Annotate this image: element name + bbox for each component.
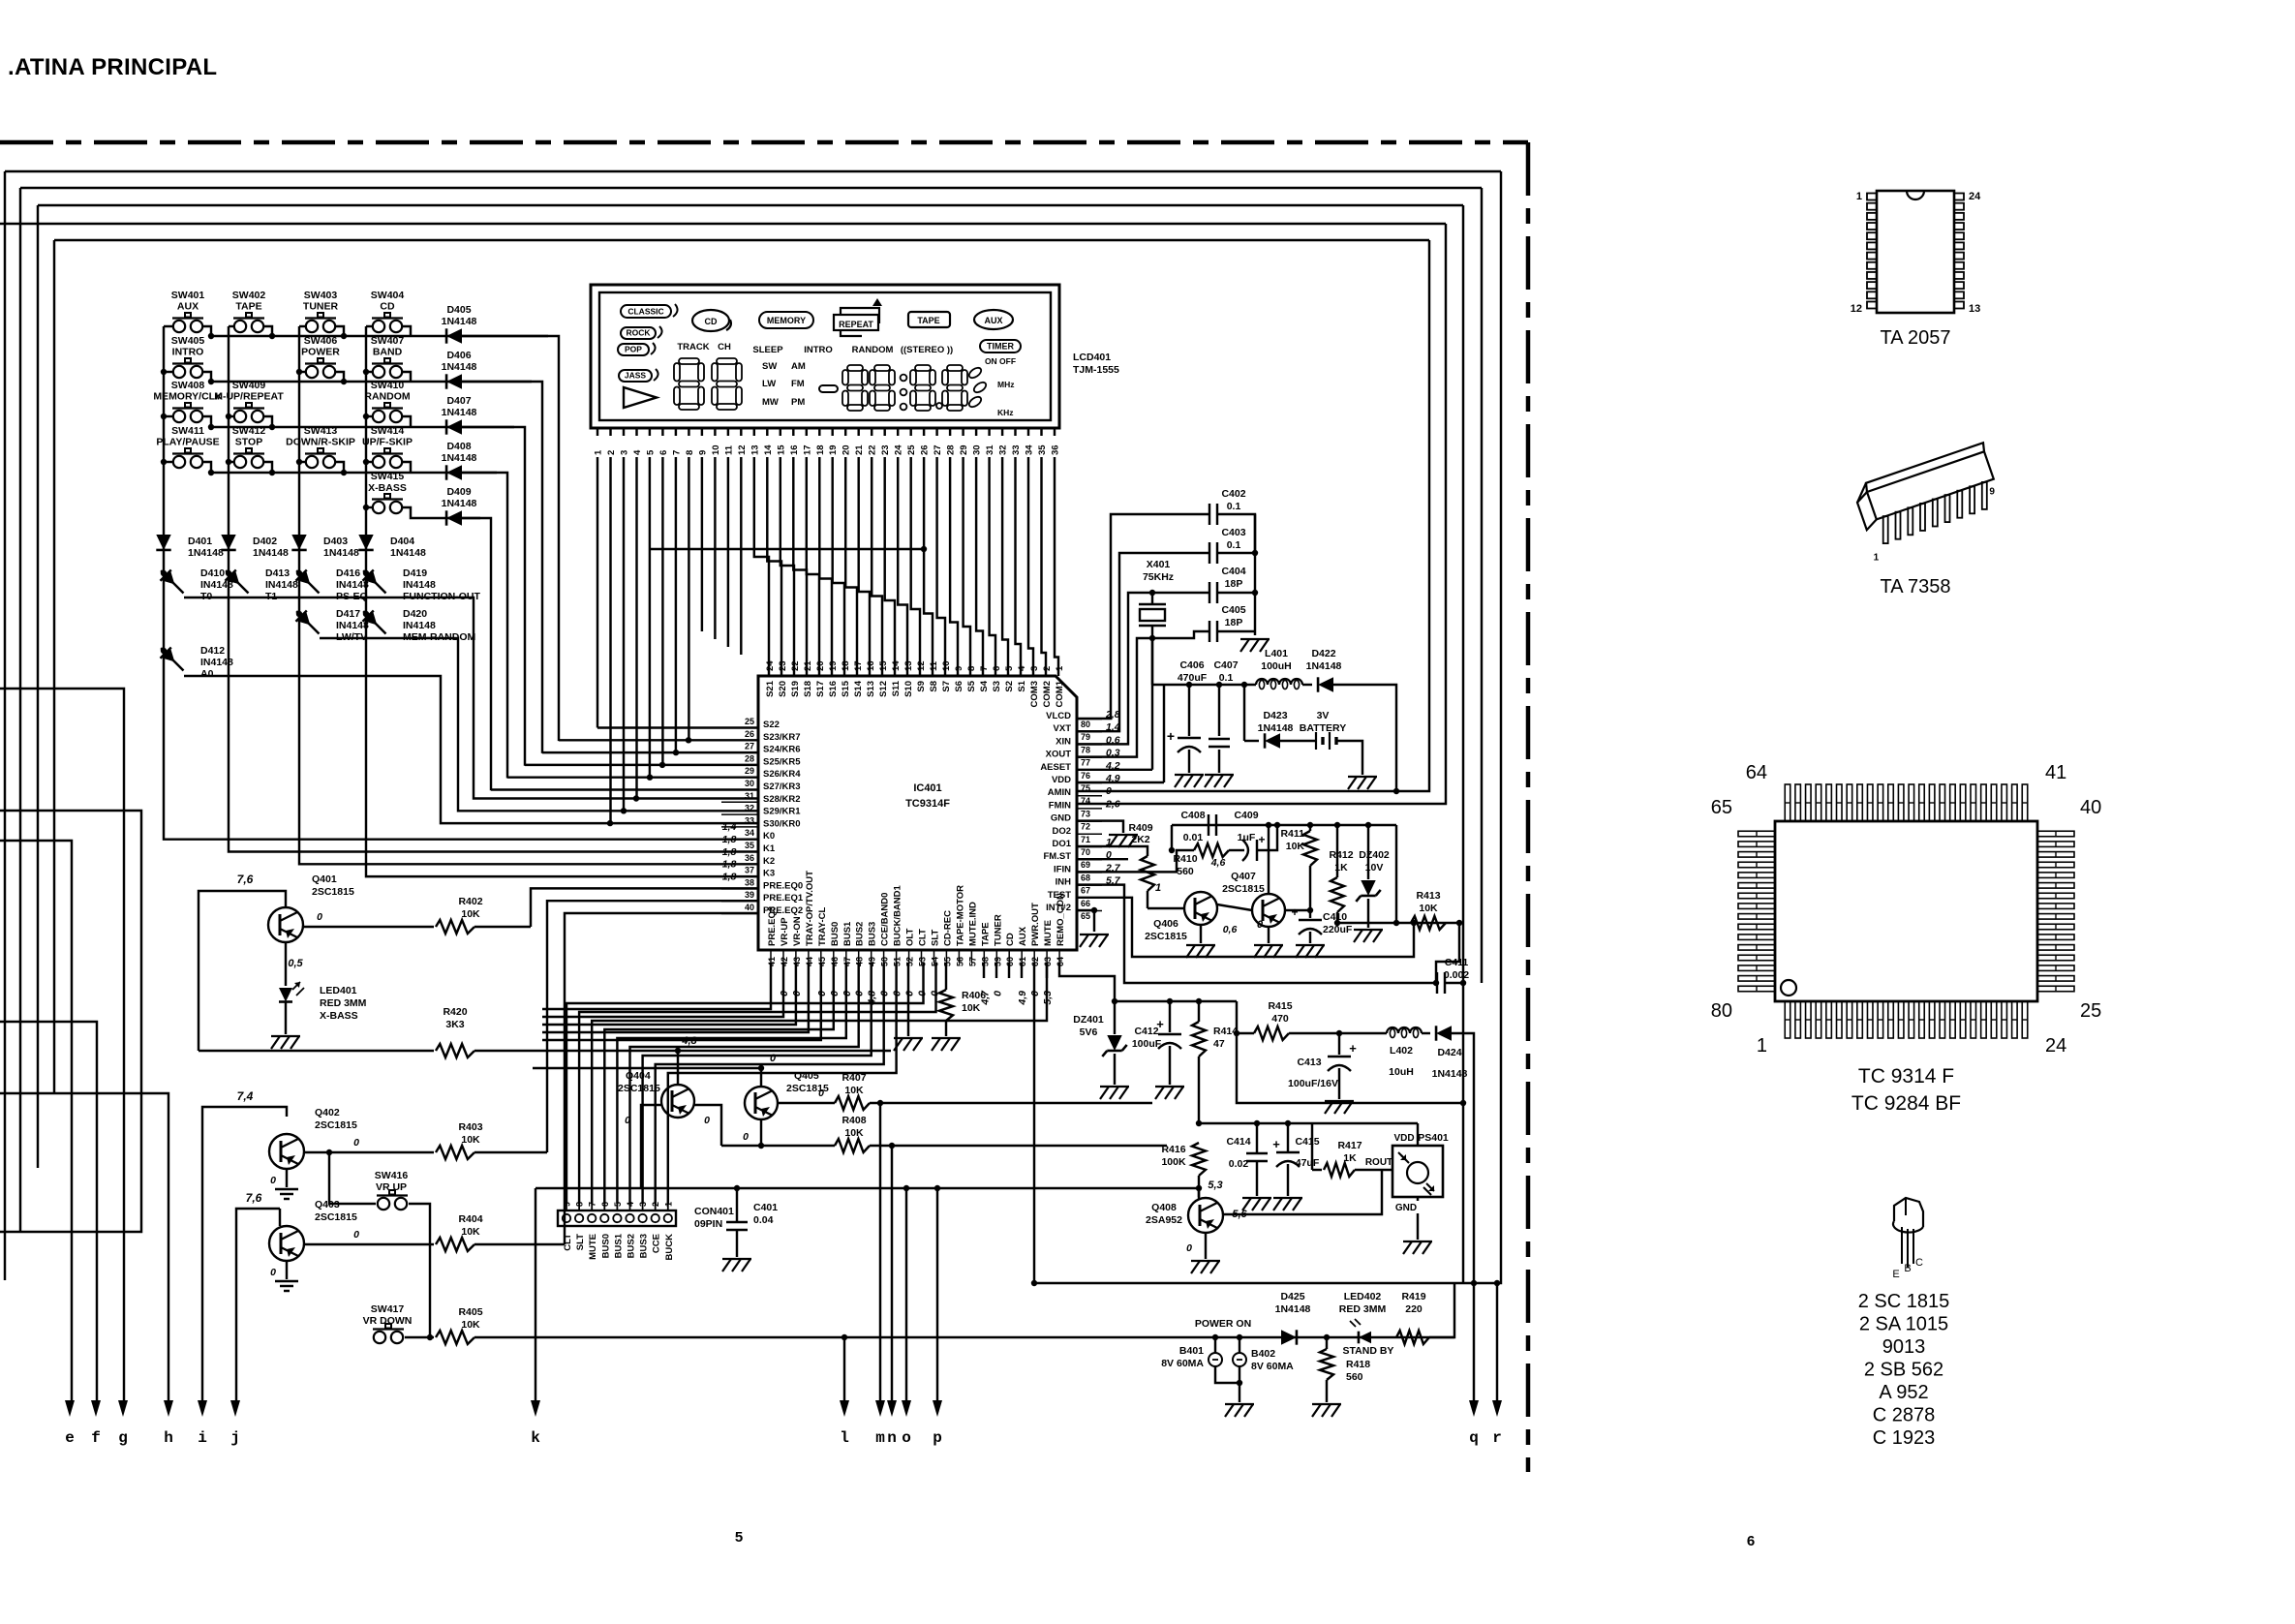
svg-text:68: 68 (1081, 873, 1090, 882)
svg-text:S16: S16 (828, 681, 839, 697)
LCD icon CLASSIC (621, 305, 671, 318)
svg-text:DO1: DO1 (1052, 839, 1071, 849)
diode D413 1N4148 T1 (226, 570, 231, 576)
svg-text:4: 4 (626, 1202, 635, 1207)
LCD icon MEMORY (759, 312, 813, 328)
LCD icon POP (618, 344, 649, 355)
svg-text:0.04: 0.04 (753, 1214, 774, 1226)
wire D406 row to vertical (462, 382, 542, 753)
svg-text:D410: D410 (200, 567, 225, 579)
LCD icon TAPE (908, 312, 950, 327)
svg-text:09PIN: 09PIN (694, 1218, 722, 1230)
svg-text:TUNER: TUNER (303, 301, 339, 313)
wire switch row 1 (164, 325, 173, 327)
svg-text:0: 0 (270, 1175, 276, 1186)
svg-text:0: 0 (353, 1229, 359, 1241)
capacitor C404 18P (1209, 582, 1210, 603)
svg-text:m: m (875, 1429, 885, 1447)
svg-text:DZ402: DZ402 (1359, 849, 1390, 861)
svg-text:FM: FM (791, 379, 805, 389)
capacitor C402 0.1 (1209, 504, 1210, 525)
svg-text:STAND BY: STAND BY (1343, 1345, 1394, 1357)
svg-text:R418: R418 (1346, 1359, 1370, 1370)
wire bus top line 2 (20, 187, 1482, 189)
svg-text:9: 9 (697, 450, 708, 455)
svg-text:13: 13 (750, 444, 760, 455)
wire Q401 base row R402 (303, 926, 434, 928)
svg-text:INTRO: INTRO (804, 345, 833, 355)
svg-text:220: 220 (1405, 1303, 1423, 1315)
svg-text:C409: C409 (1234, 810, 1258, 821)
svg-text:C413: C413 (1297, 1057, 1321, 1068)
svg-text:BUS1: BUS1 (842, 921, 853, 946)
svg-text:INH: INH (1056, 877, 1072, 888)
wire switch column 4 (365, 326, 367, 614)
node i arrow (198, 1400, 207, 1417)
wire PRE.EQ0 loop to R402 (531, 888, 758, 927)
LCD 7seg TRACK digits 88 (679, 358, 699, 364)
wire XIN row to C404 and X401 (1077, 593, 1209, 744)
svg-text:+: + (1258, 833, 1265, 846)
svg-text:1N4148: 1N4148 (442, 316, 477, 327)
svg-text:Q403: Q403 (315, 1199, 340, 1210)
svg-text:32: 32 (998, 444, 1009, 455)
svg-text:CH: CH (718, 342, 731, 352)
svg-text:Q405: Q405 (794, 1070, 819, 1082)
svg-text:+: + (1349, 1041, 1357, 1056)
svg-text:D406: D406 (446, 350, 471, 361)
svg-text:R420: R420 (443, 1006, 467, 1018)
svg-text:6: 6 (658, 450, 669, 455)
svg-text:24: 24 (894, 444, 904, 455)
svg-text:24: 24 (765, 660, 776, 671)
wire SW415 row (366, 506, 373, 508)
svg-text:Q406: Q406 (1153, 918, 1178, 930)
svg-text:GND: GND (1051, 813, 1071, 824)
svg-text:14: 14 (763, 444, 774, 455)
wire bus right vertical 2 to C411 (1481, 188, 1483, 983)
ground below C402-C405 chain (1254, 514, 1256, 635)
wire bottom row 1325 r drop (1494, 1280, 1500, 1286)
svg-text:D423: D423 (1263, 710, 1287, 721)
svg-text:STOP: STOP (235, 437, 262, 448)
wire switch column 2 (228, 326, 229, 573)
LCD pin stubs and numbers 1-36 (597, 428, 598, 436)
svg-text:0: 0 (1257, 919, 1264, 931)
svg-text:1N4148: 1N4148 (1275, 1303, 1311, 1315)
wire Q405 emitter (760, 1119, 762, 1146)
svg-text:S6: S6 (954, 681, 964, 692)
svg-text:D425: D425 (1280, 1291, 1304, 1302)
svg-text:BAND: BAND (373, 347, 403, 358)
svg-text:1N4148: 1N4148 (442, 361, 477, 373)
svg-text:TAPE: TAPE (917, 316, 939, 325)
svg-text:78: 78 (1081, 745, 1090, 754)
wire switch row 2 (164, 371, 173, 373)
svg-text:PRE.EQ1: PRE.EQ1 (763, 893, 804, 904)
svg-text:D419: D419 (403, 567, 427, 579)
svg-text:+: + (1291, 905, 1298, 919)
svg-text:10K: 10K (461, 1134, 480, 1146)
capacitor C403 0.1 (1209, 542, 1210, 564)
svg-text:PLAY/PAUSE: PLAY/PAUSE (156, 437, 219, 448)
LCD icon REPEAT (834, 315, 878, 330)
svg-text:TUNER: TUNER (993, 914, 1003, 946)
svg-text:28: 28 (745, 753, 754, 763)
svg-text:3: 3 (1029, 666, 1040, 671)
svg-text:1,8: 1,8 (722, 834, 737, 845)
svg-text:2SC1815: 2SC1815 (312, 886, 354, 898)
svg-text:PS401: PS401 (1418, 1132, 1449, 1144)
svg-text:j: j (230, 1429, 240, 1447)
svg-text:CLT: CLT (918, 929, 929, 946)
svg-text:RED 3MM: RED 3MM (1339, 1303, 1387, 1315)
svg-text:D420: D420 (403, 608, 427, 620)
svg-text:470uF: 470uF (1178, 672, 1208, 684)
svg-text:GND: GND (1395, 1203, 1417, 1213)
svg-text:S5: S5 (966, 680, 977, 691)
svg-text:9: 9 (563, 1202, 572, 1207)
svg-text:n: n (887, 1429, 897, 1447)
svg-text:f: f (91, 1429, 101, 1447)
svg-text:VR UP: VR UP (376, 1181, 407, 1193)
svg-text:R419: R419 (1401, 1291, 1425, 1302)
svg-text:C402: C402 (1221, 488, 1245, 500)
svg-text:73: 73 (1081, 809, 1090, 818)
svg-text:DOWN/R-SKIP: DOWN/R-SKIP (286, 437, 355, 448)
svg-text:IN4148: IN4148 (265, 579, 298, 591)
svg-text:C403: C403 (1221, 527, 1245, 538)
svg-text:C: C (1915, 1257, 1923, 1269)
svg-text:30: 30 (972, 444, 983, 455)
svg-text:33: 33 (1011, 444, 1022, 455)
svg-text:D407: D407 (446, 395, 471, 407)
svg-text:K0: K0 (763, 831, 775, 842)
svg-text:17: 17 (853, 660, 864, 671)
svg-text:40: 40 (2080, 797, 2101, 818)
svg-text:S26/KR4: S26/KR4 (763, 769, 801, 780)
svg-text:18: 18 (841, 660, 851, 671)
svg-text:3: 3 (638, 1202, 648, 1207)
svg-text:D404: D404 (390, 536, 414, 547)
wire k drop (535, 1188, 536, 1402)
wire PRE.EQ2 loop to R404 (565, 913, 758, 1244)
LCD 7seg clock digits 88:88 (847, 365, 863, 371)
svg-text:24: 24 (1969, 191, 1981, 202)
svg-text:0: 0 (704, 1115, 710, 1126)
wire left feeder to e (0, 841, 72, 1402)
svg-text:10: 10 (711, 444, 721, 455)
wire REMO_CON drop to 5V row (1059, 963, 1115, 1001)
svg-text:FMIN: FMIN (1049, 800, 1071, 811)
svg-text:0: 0 (904, 991, 916, 996)
svg-text:R413: R413 (1416, 890, 1440, 902)
wire bus left vertical 4 (53, 240, 55, 1093)
wire row R413 (1337, 922, 1459, 924)
svg-text:POWER: POWER (301, 347, 340, 358)
svg-text:COM3: COM3 (1029, 681, 1040, 707)
LCD icon TIMER (980, 340, 1021, 352)
svg-text:0: 0 (1106, 785, 1112, 797)
svg-text:100uH: 100uH (1261, 660, 1292, 672)
svg-text:SW: SW (762, 361, 777, 372)
svg-text:Q407: Q407 (1231, 871, 1256, 882)
wire Q406 collector to Q407 base (1217, 904, 1252, 910)
LCD icon CD (692, 310, 729, 331)
svg-text:SW405: SW405 (171, 335, 205, 347)
wire D409 row to vertical (462, 518, 491, 790)
svg-text:29: 29 (959, 444, 969, 455)
svg-text:PWR.OUT: PWR.OUT (1030, 903, 1041, 946)
svg-text:1: 1 (663, 1202, 673, 1207)
diode D419 1N4148 FUNCTION-OUT (363, 570, 369, 576)
svg-text:R411: R411 (1280, 828, 1304, 840)
svg-text:31: 31 (985, 444, 995, 455)
svg-text:K3: K3 (763, 869, 775, 879)
svg-text:VLCD: VLCD (1046, 711, 1071, 721)
connector CON401 09PIN (558, 1210, 676, 1226)
svg-text:D403: D403 (323, 536, 348, 547)
page border dash-dot right (1526, 142, 1531, 1472)
wire Q401 emitter to LED401 (285, 942, 287, 986)
svg-text:IN4148: IN4148 (403, 620, 436, 631)
svg-text:CLT: CLT (563, 1234, 573, 1251)
svg-text:1: 1 (1055, 665, 1065, 671)
svg-text:41: 41 (2045, 762, 2066, 783)
svg-text:9: 9 (1989, 487, 1995, 498)
wire K0-K3 rows from switch columns (164, 651, 758, 840)
node k arrow (531, 1400, 540, 1417)
svg-text:0.002: 0.002 (1444, 969, 1469, 981)
svg-text:12: 12 (1851, 303, 1862, 315)
svg-text:C412: C412 (1134, 1026, 1158, 1037)
svg-text:CD-REC: CD-REC (942, 910, 953, 946)
node g arrow (118, 1400, 128, 1417)
node p arrow (933, 1400, 942, 1417)
svg-text:C 2878: C 2878 (1873, 1405, 1936, 1426)
svg-text:S13: S13 (866, 681, 876, 697)
wire row 1160 (1199, 1122, 1418, 1124)
svg-text:9: 9 (954, 666, 964, 671)
svg-text:7: 7 (979, 666, 990, 671)
svg-text:POWER ON: POWER ON (1195, 1318, 1251, 1330)
wire Q403 collector row R404 (304, 1243, 434, 1245)
svg-text:67: 67 (1081, 886, 1090, 896)
svg-text:IFIN: IFIN (1054, 864, 1071, 874)
svg-text:B402: B402 (1251, 1348, 1275, 1360)
svg-text:CON401: CON401 (694, 1206, 734, 1217)
svg-text:23: 23 (880, 444, 891, 455)
svg-text:COM2: COM2 (1042, 681, 1053, 707)
svg-text:INTRO: INTRO (172, 347, 204, 358)
svg-text:BUS0: BUS0 (830, 922, 841, 946)
svg-text:D412: D412 (200, 645, 225, 657)
svg-text:56: 56 (955, 957, 964, 966)
svg-text:R405: R405 (458, 1306, 482, 1318)
svg-text:80: 80 (1081, 720, 1090, 729)
svg-text:0,5: 0,5 (288, 958, 303, 969)
svg-text:VXT: VXT (1054, 723, 1072, 734)
svg-text:1N4148: 1N4148 (442, 498, 477, 509)
svg-text:MHz: MHz (997, 380, 1014, 389)
wire bus left vertical 2 (19, 188, 21, 1232)
wire VDD row to supply rail (1077, 781, 1164, 783)
wire row 1103 to Q405 (533, 1067, 761, 1069)
wire D408 row to vertical (462, 473, 507, 779)
svg-text:S20: S20 (778, 681, 788, 697)
svg-text:47: 47 (1213, 1038, 1225, 1050)
svg-text:7,6: 7,6 (246, 1191, 262, 1205)
diode D407 1N4148 (446, 419, 462, 434)
svg-text:IN4148: IN4148 (403, 579, 436, 591)
node h arrow (164, 1400, 173, 1417)
svg-text:AESET: AESET (1040, 762, 1071, 773)
wire bus top line 5 (54, 239, 1429, 241)
svg-text:S29/KR1: S29/KR1 (763, 807, 801, 817)
wire left feeder to g (0, 689, 124, 1402)
svg-text:34: 34 (745, 828, 754, 838)
svg-text:18P: 18P (1225, 578, 1243, 590)
svg-text:52: 52 (905, 957, 915, 966)
svg-text:BUCK/BAND1: BUCK/BAND1 (893, 884, 903, 946)
svg-text:2: 2 (1042, 666, 1053, 671)
svg-text:DO2: DO2 (1052, 826, 1071, 837)
svg-text:C401: C401 (753, 1202, 778, 1213)
wire D424 to q drop (1452, 1033, 1474, 1402)
svg-text:LED402: LED402 (1344, 1291, 1382, 1302)
svg-text:AUX: AUX (177, 301, 199, 313)
wire 3V supply rail (1152, 684, 1256, 686)
svg-text:R414: R414 (1213, 1026, 1238, 1037)
svg-text:X-BASS: X-BASS (368, 482, 407, 494)
wire AUX pin61 drop (1021, 963, 1023, 978)
svg-text:40: 40 (745, 903, 754, 912)
svg-text:20: 20 (841, 444, 852, 455)
svg-text:MW: MW (762, 397, 779, 408)
svg-text:25: 25 (2080, 1000, 2101, 1022)
svg-text:AMIN: AMIN (1048, 787, 1071, 798)
svg-text:DZ401: DZ401 (1073, 1014, 1104, 1026)
svg-text:77: 77 (1081, 758, 1090, 768)
node e arrow (65, 1400, 75, 1417)
svg-text:0.1: 0.1 (1219, 672, 1234, 684)
wire 4,8 row to Q404 (474, 1050, 678, 1052)
svg-text:26: 26 (745, 729, 754, 739)
diode D404 1N4148 (358, 535, 373, 550)
wire o drop (905, 1188, 907, 1402)
wire bus T0 row to pin31 (184, 598, 758, 799)
wire bus left vertical 3 (37, 205, 39, 1168)
wire PS401 loop top (1237, 1033, 1463, 1103)
svg-text:4: 4 (632, 449, 643, 455)
svg-text:21: 21 (803, 660, 813, 671)
svg-text:S11: S11 (891, 680, 902, 696)
svg-text:39: 39 (745, 890, 754, 900)
svg-text:BUS3: BUS3 (639, 1234, 650, 1258)
IC IC401 TC9314F body (758, 676, 1077, 950)
svg-text:C414: C414 (1226, 1136, 1250, 1148)
svg-text:72: 72 (1081, 822, 1090, 832)
svg-text:S10: S10 (903, 681, 914, 697)
svg-text:R417: R417 (1337, 1140, 1362, 1151)
svg-text:1,8: 1,8 (722, 871, 737, 882)
svg-text:18: 18 (815, 444, 826, 455)
wire switch column 1 (163, 326, 165, 651)
svg-text:1: 1 (1757, 1035, 1767, 1057)
svg-text:IC401: IC401 (913, 782, 941, 794)
wire 5V row corner to R415 (1237, 1001, 1254, 1033)
wire n drop (891, 1146, 893, 1402)
svg-text:1N4148: 1N4148 (253, 547, 289, 559)
svg-text:X401: X401 (1147, 559, 1171, 570)
svg-text:0.02: 0.02 (1229, 1158, 1249, 1170)
svg-text:0.1: 0.1 (1227, 539, 1241, 551)
svg-text:C407: C407 (1213, 659, 1238, 671)
wire TEST row box (1077, 898, 1414, 957)
diode D410 1N4148 T0 (161, 570, 167, 576)
svg-text:3K3: 3K3 (445, 1019, 464, 1030)
wire Q401 collector loop 7,6 (199, 891, 286, 1051)
wire bus LW/TV row to pin32 (320, 638, 758, 811)
svg-text:5,3: 5,3 (1208, 1180, 1222, 1191)
svg-text:100uF/16V: 100uF/16V (1288, 1078, 1338, 1089)
svg-text:TA 7358: TA 7358 (1880, 576, 1950, 598)
svg-text:BATTERY: BATTERY (1300, 722, 1346, 734)
svg-text:S14: S14 (853, 680, 864, 697)
diode D416 1N4148 PS-EQ (296, 570, 302, 576)
svg-text:Q401: Q401 (312, 873, 337, 885)
svg-text:VR-ON: VR-ON (792, 916, 803, 946)
svg-text:12: 12 (737, 444, 748, 455)
svg-text:4,6: 4,6 (1210, 857, 1226, 869)
svg-text:18P: 18P (1225, 617, 1243, 628)
svg-text:1N4148: 1N4148 (442, 407, 477, 418)
svg-text:13: 13 (903, 660, 914, 671)
svg-text:SW403: SW403 (304, 290, 338, 301)
svg-text:LCD401: LCD401 (1073, 352, 1111, 363)
wire bus left vertical 1 (4, 171, 6, 1280)
svg-text:LED401: LED401 (320, 985, 357, 996)
IC package TC 9314 F QFP-80 (1775, 821, 2037, 1001)
wire row 1227 from left (535, 1187, 1198, 1189)
svg-text:5: 5 (645, 449, 656, 455)
svg-text:VDD: VDD (1052, 775, 1071, 785)
svg-text:6: 6 (600, 1202, 610, 1207)
svg-text:M-UP/REPEAT: M-UP/REPEAT (214, 391, 284, 403)
node j arrow (230, 1400, 240, 1417)
svg-text:TAPE: TAPE (980, 922, 991, 946)
wire switch row 4 (164, 461, 173, 463)
svg-text:1,4: 1,4 (722, 821, 737, 833)
svg-text:CCE: CCE (652, 1234, 662, 1253)
svg-text:2K2: 2K2 (1131, 834, 1149, 845)
svg-text:D413: D413 (265, 567, 290, 579)
svg-text:TA 2057: TA 2057 (1880, 327, 1950, 349)
svg-text:5V6: 5V6 (1080, 1026, 1098, 1038)
svg-text:6: 6 (1747, 1533, 1755, 1549)
capacitor C405 18P (1152, 631, 1209, 638)
svg-text:TEST: TEST (1048, 890, 1071, 901)
wire IC pins 41-45 drops (542, 963, 771, 1009)
svg-text:28: 28 (946, 444, 957, 455)
svg-text:LW: LW (762, 379, 776, 389)
svg-text:0.01: 0.01 (1183, 832, 1204, 843)
svg-text:h: h (164, 1429, 173, 1447)
wire INH to C411 (1077, 885, 1437, 983)
svg-text:7,6: 7,6 (237, 873, 254, 886)
wire X401 stem to supply rail (1151, 638, 1153, 685)
wire VLCD row to C402 (1077, 514, 1209, 719)
